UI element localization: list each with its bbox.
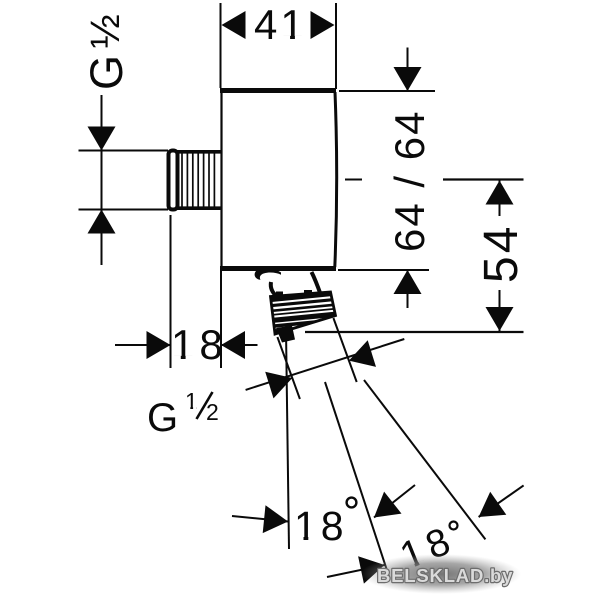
svg-text:64 / 64: 64 / 64 [386,110,433,252]
dimension 64/64 arrows [394,67,422,91]
dimension 41 arrows [222,11,246,39]
svg-text:BELSKLAD.by: BELSKLAD.by [377,565,513,586]
dimension 64/64 extension lines [338,91,435,270]
wall plate body [220,89,337,269]
G 1/2 left dimension line [101,95,103,265]
G 1/2 left arrows [88,127,116,151]
mask serif foot of digit 1 glyphs [283,36,290,40]
dimension 41 extension lines [221,3,337,89]
svg-text:18: 18 [171,321,228,368]
dimension 54 extension lines [305,180,524,333]
dimension 64/64 line tails [407,48,409,309]
fan line 3 (36 deg axis) [364,380,485,539]
fan line 1 (0 deg axis) [286,330,289,549]
dimension 18 arrows [147,331,171,359]
G 1/2 outlet dimension line [246,339,405,390]
dimension 18 line tails [115,344,258,346]
svg-text:1: 1 [185,388,198,414]
angle 18deg first arc arrows [232,485,415,522]
outlet connector [255,268,348,343]
svg-text:½: ½ [82,14,128,48]
svg-text:18: 18 [294,503,348,549]
svg-text:G: G [147,396,178,440]
dimension 54 line tails [499,181,501,332]
G 1/2 left extension lines [79,151,169,210]
G 1/2 outlet diameter extension lines [277,318,356,399]
dimension 54 arrows [486,181,514,205]
fan line 2 (18 deg axis) [325,382,390,578]
watermark band [361,554,521,594]
svg-text:G: G [81,55,132,90]
center line dashes [345,179,362,181]
angle 18deg second arc arrows [327,485,524,577]
svg-text:41: 41 [254,1,307,48]
svg-text:2: 2 [206,399,219,425]
G 1/2 outlet arrows [265,372,292,399]
thread nipple [169,151,222,210]
dimension 18 extension lines [171,215,222,368]
svg-text:54: 54 [475,224,528,283]
